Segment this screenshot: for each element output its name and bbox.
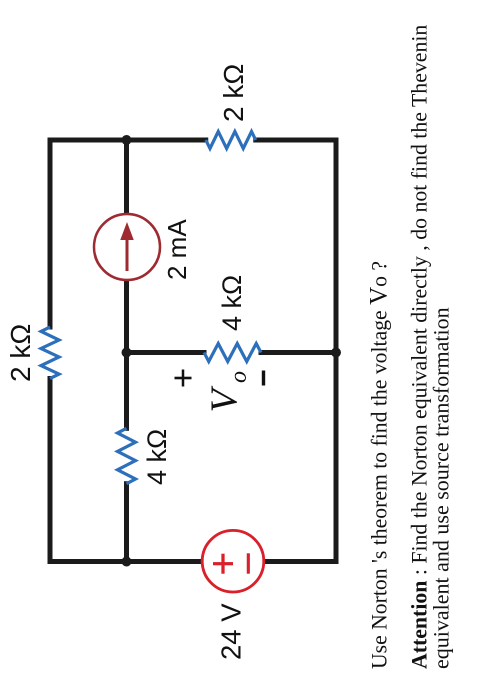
current source I1 circle	[94, 214, 160, 280]
wire right side	[50, 138, 336, 143]
resistor R3 4 kOhm middle horizontal	[118, 428, 136, 483]
node junction dot middle	[122, 348, 132, 358]
resistor R4 4 kOhm output Vo	[204, 344, 261, 362]
svg-text:2 kΩ: 2 kΩ	[5, 324, 36, 382]
output polarity plus sign	[175, 370, 192, 387]
wire left side	[50, 559, 336, 564]
svg-text:4 kΩ: 4 kΩ	[142, 429, 172, 485]
svg-text:o: o	[226, 371, 252, 383]
current source I1 arrow	[126, 238, 129, 271]
voltage source V1 minus sign	[247, 553, 250, 573]
svg-text:equivalent and use source tran: equivalent and use source transformation	[429, 307, 454, 669]
resistor R1 2 kOhm top	[41, 327, 59, 379]
svg-text:2 kΩ: 2 kΩ	[218, 64, 249, 122]
node junction dot bottom	[331, 348, 341, 358]
wire top side	[48, 140, 53, 562]
node junction dot left	[122, 557, 132, 567]
output polarity minus sign	[262, 371, 265, 386]
wire middle vertical	[127, 350, 337, 355]
node junction dot right	[122, 135, 132, 145]
wire middle horizontal	[124, 140, 129, 562]
svg-text:Use Norton 's theorem to find: Use Norton 's theorem to find the voltag…	[366, 261, 393, 669]
voltage source V1 plus sign	[213, 554, 233, 574]
voltage source V1 circle	[202, 530, 264, 592]
resistor R2 2 kOhm right	[206, 132, 256, 149]
svg-text:2 mA: 2 mA	[162, 219, 192, 280]
svg-text:4 kΩ: 4 kΩ	[217, 275, 247, 331]
wire bottom side	[334, 140, 339, 562]
svg-text:24 V: 24 V	[216, 603, 247, 660]
svg-text:V: V	[204, 386, 246, 413]
